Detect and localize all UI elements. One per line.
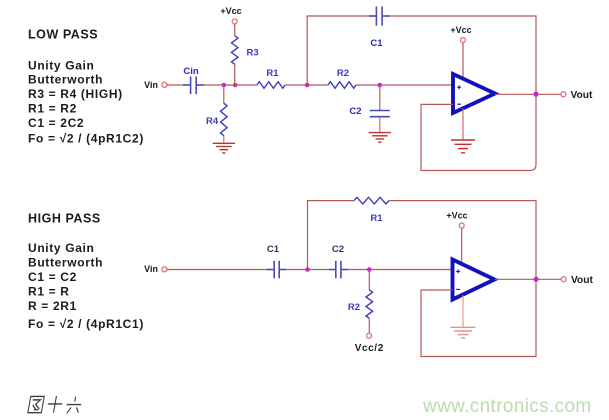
wire node to R4 <box>223 85 225 103</box>
resistor R4 <box>221 103 228 136</box>
pin + (U1) <box>457 85 461 89</box>
svg-text:LOW PASS: LOW PASS <box>28 28 98 42</box>
svg-text:Vout: Vout <box>571 275 593 286</box>
node C1/C2 junction <box>305 267 310 272</box>
wire R1 rail left <box>307 200 354 202</box>
svg-text:C2: C2 <box>332 244 344 255</box>
wire feedback loop (low-pass) <box>421 97 536 171</box>
resistor R1 (low-pass) <box>257 82 285 89</box>
terminal Vcc/2 <box>367 333 372 338</box>
svg-text:R3: R3 <box>247 48 259 59</box>
low-pass design notes <box>28 58 144 145</box>
wire op-amp output to Vout (high-pass) <box>495 278 562 280</box>
svg-text:R1: R1 <box>370 213 383 224</box>
terminal Vout (low-pass) <box>561 92 566 97</box>
terminal +Vcc (op-amp low-pass) <box>461 38 466 43</box>
wire Cin to input node <box>204 84 235 86</box>
svg-text:R1: R1 <box>266 68 279 79</box>
wire R1 to R2 with feedback tap <box>285 84 328 86</box>
wire Vin to C1 <box>167 269 268 271</box>
wire R2 tap down <box>368 270 370 290</box>
wire R2 to op-amp input <box>356 84 453 86</box>
terminal +Vcc (R3 supply) <box>232 19 237 24</box>
pin - (U1) <box>457 103 461 105</box>
svg-text:Vout: Vout <box>571 90 593 101</box>
svg-text:HIGH PASS: HIGH PASS <box>28 212 101 226</box>
capacitor C2 (high-pass) <box>329 261 348 279</box>
resistor R2 (high-pass) <box>366 290 373 319</box>
svg-text:Fo = √2 / (4pR1C1): Fo = √2 / (4pR1C1) <box>28 317 144 331</box>
svg-text:R1 = R: R1 = R <box>28 285 70 299</box>
wire op-amp to ground (high-pass) <box>462 296 464 328</box>
svg-text:Cin: Cin <box>183 66 199 77</box>
wire tap up to C1 rail <box>306 16 308 85</box>
op-amp U2 (high-pass) <box>453 260 495 300</box>
svg-text:R3 = R4 (HIGH): R3 = R4 (HIGH) <box>28 87 123 101</box>
svg-text:R2: R2 <box>348 302 360 313</box>
wire C2 tap down <box>379 85 381 110</box>
wire C1 rail right and down to output <box>390 16 536 94</box>
resistor R1 (high-pass) <box>354 197 389 204</box>
svg-text:Vin: Vin <box>144 264 158 274</box>
ground (op-amp low-pass) <box>451 140 475 153</box>
terminal Vin (high-pass) <box>162 267 167 272</box>
figure caption 图十六 <box>28 396 83 413</box>
wire R1 rail right and down to output <box>389 201 536 280</box>
svg-text:www.cntronics.com: www.cntronics.com <box>422 396 592 417</box>
svg-text:Unity Gain: Unity Gain <box>28 241 95 255</box>
pin + (U2) <box>456 270 460 274</box>
wire +Vcc to op-amp <box>462 43 464 80</box>
high-pass design notes <box>28 241 144 331</box>
svg-text:R1 = R2: R1 = R2 <box>28 101 77 115</box>
svg-text:Butterworth: Butterworth <box>28 73 103 87</box>
wire R3 to node <box>234 64 236 85</box>
svg-text:+Vcc: +Vcc <box>220 6 241 16</box>
capacitor C2 (low-pass) <box>370 111 390 117</box>
capacitor C1 (high-pass) <box>267 261 286 279</box>
node C2 tap <box>378 83 383 88</box>
ground (C2) <box>369 133 391 143</box>
node R2 tap <box>367 267 372 272</box>
capacitor Cin <box>183 76 204 94</box>
svg-text:C2: C2 <box>349 106 361 117</box>
terminal Vin (low-pass) <box>162 82 167 87</box>
svg-text:C1 = 2C2: C1 = 2C2 <box>28 116 84 130</box>
svg-text:Butterworth: Butterworth <box>28 255 103 269</box>
node junction A (R4 tap) <box>222 83 227 88</box>
wire Vin to Cin <box>167 84 184 86</box>
node output junction (low-pass) <box>534 92 539 97</box>
svg-text:R = 2R1: R = 2R1 <box>28 299 77 313</box>
pin - (U2) <box>456 288 460 290</box>
wire op-amp output to Vout <box>495 93 561 95</box>
capacitor C1 (low-pass) <box>369 7 390 26</box>
svg-text:+Vcc: +Vcc <box>446 211 467 221</box>
wire op-amp to ground <box>462 109 464 141</box>
svg-text:R2: R2 <box>337 68 349 79</box>
svg-text:C1: C1 <box>267 244 280 255</box>
op-amp U1 (low-pass) <box>453 74 495 113</box>
wire R4 to ground <box>223 136 225 144</box>
wire +Vcc to op-amp <box>461 228 463 265</box>
svg-text:Unity Gain: Unity Gain <box>28 58 95 72</box>
node output junction (high-pass) <box>534 277 539 282</box>
ground (R4) <box>213 143 235 153</box>
svg-text:Fo = √2 / (4pR1C2): Fo = √2 / (4pR1C2) <box>28 132 144 146</box>
wire C1 rail left <box>307 15 374 17</box>
ground (op-amp high-pass) <box>451 327 476 338</box>
svg-text:R4: R4 <box>206 116 219 127</box>
wire feedback loop (high-pass) <box>421 282 536 357</box>
wire +Vcc to R3 <box>234 24 236 36</box>
resistor R2 (low-pass) <box>328 82 356 89</box>
wire C1 to node <box>286 269 330 271</box>
wire node up to R1 rail <box>307 200 309 270</box>
wire C2 to ground <box>379 117 381 133</box>
terminal Vout (high-pass) <box>561 277 566 282</box>
wire node to R1 <box>235 84 257 86</box>
svg-text:C1: C1 <box>370 38 383 49</box>
node feedback tap <box>305 83 310 88</box>
node junction B (R3 tap) <box>233 83 238 88</box>
svg-text:Vcc/2: Vcc/2 <box>355 343 384 354</box>
svg-text:+Vcc: +Vcc <box>450 25 471 35</box>
wire R2 to Vcc/2 <box>368 318 370 333</box>
svg-text:C1 = C2: C1 = C2 <box>28 270 77 284</box>
terminal +Vcc (op-amp high-pass) <box>459 223 464 228</box>
resistor R3 <box>231 36 238 65</box>
wire C2 to op-amp input <box>348 269 453 271</box>
svg-text:Vin: Vin <box>144 80 158 90</box>
